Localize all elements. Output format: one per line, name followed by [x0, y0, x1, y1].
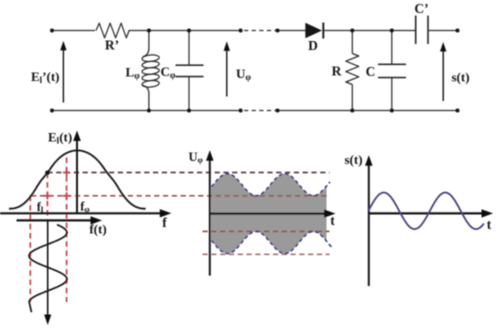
- junction dot top rail x=457.5: [456, 29, 460, 33]
- junction dot top rail x=52: [50, 29, 54, 33]
- operating point dot on curve: [45, 171, 50, 176]
- wire top-left from input node to resistor R': [52, 30, 95, 32]
- f(t) time axis (vertical arrow down): [47, 220, 49, 316]
- junction dot top rail x=391.8: [390, 29, 394, 33]
- inductor L-phi coil loops: [142, 54, 160, 62]
- wire top from node to diode: [278, 30, 306, 32]
- junction dot bottom rail x=391.8: [390, 109, 394, 113]
- right plot s(t) axis (vertical): [368, 162, 370, 286]
- junction dot top rail x=240.6: [239, 29, 243, 33]
- diode D (anode triangle + cathode bar): [305, 23, 322, 39]
- junction dot bottom rail x=457.5: [456, 109, 460, 113]
- junction dot bottom rail x=52: [50, 109, 54, 113]
- red dashed vertical line at f min: [29, 196, 31, 302]
- wire top right output: [428, 30, 458, 32]
- red plus mark at (f max, upper level): [63, 169, 70, 176]
- red plus mark at (f_l, lower level): [44, 192, 51, 199]
- svg-text:El(t): El(t): [48, 130, 72, 146]
- svg-text:t: t: [330, 213, 335, 228]
- svg-text:R: R: [332, 64, 342, 79]
- arrow U-phi: [226, 50, 228, 97]
- svg-text:El’(t): El’(t): [31, 69, 60, 85]
- middle plot U-phi axis (vertical): [209, 157, 211, 276]
- resonance bell curve: [9, 150, 146, 208]
- junction dot top rail x=352.3: [350, 29, 354, 33]
- dashed wire bottom: [244, 110, 277, 112]
- inductor L-phi wire bottom lead: [143, 85, 149, 110]
- junction dot top rail x=189: [187, 29, 191, 33]
- capacitor C-phi leads: [188, 31, 190, 66]
- capacitor C plates: [378, 63, 406, 65]
- demodulated sine s(t) (blue): [368, 193, 484, 230]
- svg-text:f: f: [162, 215, 167, 230]
- junction dot bottom rail x=277.5: [276, 109, 280, 113]
- svg-text:C: C: [366, 64, 376, 79]
- left plot f axis (horizontal): [0, 212, 162, 214]
- input arrow E1'(t): [62, 49, 64, 103]
- red dashed horizontal line lower (envelope min level): [31, 195, 330, 197]
- junction dot bottom rail x=148.9: [147, 109, 151, 113]
- right plot t axis: [369, 212, 484, 214]
- svg-text:t: t: [487, 217, 492, 232]
- inductor L-phi wire top lead: [143, 31, 149, 57]
- wire top middle (resistor to tank to dashed break): [129, 30, 241, 32]
- red dashed horizontal line upper (envelope max level): [47, 172, 329, 174]
- resistor R1 (R') zigzag: [96, 23, 129, 38]
- junction dot bottom rail x=352.3: [350, 109, 354, 113]
- f(t) sine waveform (vertical): [29, 225, 67, 313]
- resistor R zigzag: [346, 54, 359, 85]
- junction dot top rail x=148.9: [147, 29, 151, 33]
- AM signal gray body: [211, 174, 327, 254]
- f(t) axis (second horizontal axis): [17, 219, 94, 221]
- junction dot bottom rail x=189: [187, 109, 191, 113]
- junction dot top rail x=277.5: [276, 29, 280, 33]
- red dashed horizontal line 4 (bottom envelope deep): [203, 253, 330, 255]
- output arrow s(t): [442, 50, 444, 101]
- capacitor C' (series, horizontal): [415, 16, 417, 44]
- left plot E axis (vertical): [76, 137, 78, 213]
- svg-text:s(t): s(t): [345, 152, 363, 167]
- svg-text:D: D: [308, 38, 318, 53]
- capacitor C-phi plates: [176, 64, 204, 66]
- red plus mark at (f max, lower level): [63, 192, 70, 199]
- svg-text:R’: R’: [105, 38, 119, 53]
- bottom rail right: [278, 110, 458, 112]
- bottom rail left: [52, 110, 241, 112]
- resistor R (vertical) leads: [351, 31, 353, 54]
- red dashed horizontal line 3 (bottom envelope shallow): [203, 230, 330, 232]
- wire top right (diode to C' plate): [323, 30, 415, 32]
- svg-text:s(t): s(t): [452, 70, 470, 85]
- AM lower envelope (blue dashed): [212, 231, 334, 253]
- svg-text:f(t): f(t): [89, 222, 106, 237]
- middle plot t axis: [210, 213, 326, 215]
- red dashed vertical line at f max: [66, 158, 68, 303]
- svg-text:C’: C’: [414, 1, 428, 16]
- red dashed vertical line at f_l: [46, 173, 48, 220]
- dashed wire top: [244, 30, 277, 32]
- AM upper envelope (blue dashed): [212, 174, 331, 196]
- capacitor C (vertical) leads: [391, 31, 393, 65]
- junction dot bottom rail x=240.6: [239, 109, 243, 113]
